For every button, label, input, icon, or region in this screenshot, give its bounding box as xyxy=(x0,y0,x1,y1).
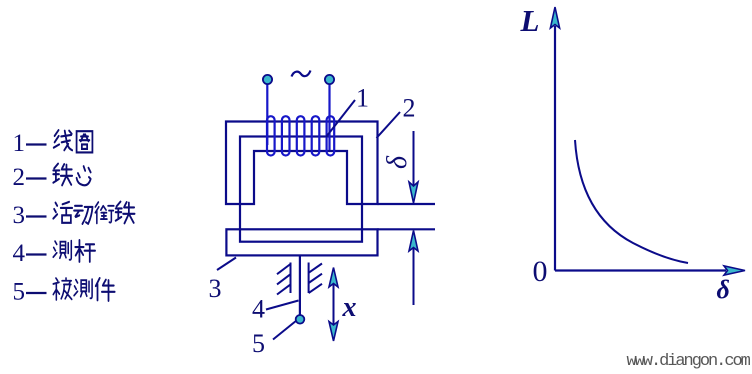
svg-text:2: 2 xyxy=(403,94,416,123)
coil 1: winding around core top bar xyxy=(267,84,334,156)
displacement arrow x (double-headed) xyxy=(329,268,338,342)
legend line 1: 1—线圈 xyxy=(13,130,93,157)
label 5 leader line xyxy=(273,321,297,340)
air gap extension line (armature top) xyxy=(378,228,436,230)
svg-text:4: 4 xyxy=(13,240,26,267)
svg-text:www.diangon.com: www.diangon.com xyxy=(627,352,751,371)
legend line 2: 2—铁心 xyxy=(13,164,91,191)
legend line 5: 5—被测件 xyxy=(13,278,115,305)
armature 3: movable iron bar xyxy=(226,229,377,255)
core inner contour (middle rectangle through core wall down to armature) xyxy=(240,137,362,242)
coil turn 2 xyxy=(282,116,290,155)
svg-text:1: 1 xyxy=(356,84,369,113)
gap dimension line upper (arrow down) xyxy=(409,131,418,203)
measuring rod 4 xyxy=(299,256,301,315)
label 4 leader line xyxy=(266,301,299,310)
legend line 3: 3—活动衔铁 xyxy=(13,202,135,229)
graph delta axis (horizontal) xyxy=(555,266,745,275)
graph L axis (vertical) xyxy=(550,7,559,271)
wire right lead xyxy=(328,84,330,150)
core 2: outer U-shaped iron core outline xyxy=(226,122,378,205)
svg-text:5: 5 xyxy=(13,279,26,306)
guide support hatching right xyxy=(309,263,322,294)
svg-text:δ: δ xyxy=(717,275,730,304)
svg-text:3: 3 xyxy=(13,202,26,229)
guide support hatching left xyxy=(277,263,291,295)
graph curve L = f(δ) xyxy=(575,140,688,263)
svg-text:x: x xyxy=(342,292,357,323)
coil turn 4 xyxy=(312,116,320,155)
coil turn 3 xyxy=(297,116,305,155)
svg-text:5: 5 xyxy=(252,329,265,358)
svg-text:3: 3 xyxy=(209,274,222,303)
gap dimension line lower (arrow up) xyxy=(409,231,418,306)
label 3 leader line xyxy=(217,258,236,271)
terminal dot right xyxy=(325,75,334,84)
label 2 leader line xyxy=(377,112,401,138)
coil turn 5 xyxy=(327,116,335,155)
terminal dot left xyxy=(263,75,272,84)
wire left lead xyxy=(266,84,268,145)
svg-text:2: 2 xyxy=(13,164,26,191)
air gap extension line (upper pole face) xyxy=(378,203,436,205)
legend line 4: 4—测杆 xyxy=(13,240,96,267)
AC source symbol ~ xyxy=(292,71,311,77)
coil turn 1 xyxy=(267,116,275,155)
svg-text:0: 0 xyxy=(533,255,548,288)
measured part 5 (ball) xyxy=(296,315,305,324)
svg-text:δ: δ xyxy=(382,155,413,169)
svg-text:L: L xyxy=(520,3,540,38)
label 1 leader line xyxy=(326,100,355,137)
svg-text:4: 4 xyxy=(252,295,265,324)
svg-text:1: 1 xyxy=(13,130,26,157)
